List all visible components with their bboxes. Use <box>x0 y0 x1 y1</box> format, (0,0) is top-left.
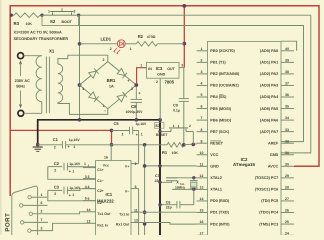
pin 27 (TDI) PC5 of IC2 <box>281 200 294 202</box>
svg-text:32: 32 <box>285 139 289 143</box>
svg-text:GND: GND <box>270 153 279 157</box>
svg-text:7: 7 <box>41 218 43 222</box>
node crystal bottom <box>192 188 195 191</box>
svg-text:1A: 1A <box>109 85 114 89</box>
pin 11 GND of IC2 <box>197 165 208 167</box>
svg-text:V+: V+ <box>125 165 129 169</box>
svg-text:RESET: RESET <box>156 133 169 137</box>
svg-text:Rx1 In: Rx1 In <box>97 224 108 228</box>
capacitor C9 <box>179 98 189 100</box>
node ground column at black bus <box>78 118 82 122</box>
svg-text:6: 6 <box>201 105 203 109</box>
svg-text:AREF: AREF <box>268 141 279 145</box>
wire V- pin6 down <box>138 189 140 235</box>
svg-text:0.1µ: 0.1µ <box>173 109 180 113</box>
svg-text:16: 16 <box>104 156 108 160</box>
svg-text:ATmega16: ATmega16 <box>233 162 255 167</box>
svg-text:2: 2 <box>201 58 203 62</box>
pin 38 (AD2) PA2 of IC2 <box>281 73 294 75</box>
svg-text:2: 2 <box>54 192 56 196</box>
wire secondary bottom to bridge AC2 <box>58 102 108 114</box>
pin 3 C1&#8722; of IC1 <box>83 178 96 180</box>
pin 1 PB0 (XCK/T0) of IC2 <box>197 50 208 52</box>
pin 28 (TOSC1) PC6 of IC2 <box>281 188 294 190</box>
svg-text:(TDO) PC4: (TDO) PC4 <box>259 211 279 215</box>
svg-text:4: 4 <box>88 185 90 189</box>
svg-text:PB6 (MISO): PB6 (MISO) <box>210 118 231 122</box>
crystal XTAL <box>193 178 195 181</box>
svg-text:1: 1 <box>72 169 74 173</box>
svg-text:26: 26 <box>285 209 289 213</box>
svg-text:BOOT: BOOT <box>62 20 73 24</box>
pin 34 (AD6) PA6 of IC2 <box>281 119 294 121</box>
svg-text:37: 37 <box>285 82 289 86</box>
svg-text:GND: GND <box>157 73 165 77</box>
ic IC2 ATmega16 box <box>208 42 282 236</box>
connector pin 7 <box>21 221 24 224</box>
svg-text:2: 2 <box>54 168 56 172</box>
svg-text:4: 4 <box>85 185 87 189</box>
svg-text:3: 3 <box>88 175 90 179</box>
svg-text:6: 6 <box>41 201 43 205</box>
wire crystal to C6 <box>193 189 195 204</box>
svg-text:30: 30 <box>285 162 289 166</box>
wire T1in to PD1 <box>139 211 197 213</box>
wire secondary top to bridge AC1 <box>58 55 108 64</box>
bridge diode top-left <box>89 71 97 78</box>
node at R1out wire <box>143 222 147 226</box>
wire DB9 pin7 stub <box>24 221 48 223</box>
node red corner at C5 <box>110 129 114 133</box>
svg-text:4: 4 <box>201 82 203 86</box>
svg-text:PB0 (XCK/T0): PB0 (XCK/T0) <box>210 49 235 53</box>
ic IC1 MAX232 box <box>96 161 131 236</box>
svg-text:13: 13 <box>200 186 204 190</box>
node C9 at reset wire <box>182 143 186 147</box>
svg-text:11: 11 <box>200 162 204 166</box>
svg-text:9: 9 <box>201 139 203 143</box>
svg-text:12: 12 <box>134 219 138 223</box>
svg-text:(TDI) PC5: (TDI) PC5 <box>261 199 278 203</box>
svg-text:10K: 10K <box>26 22 33 26</box>
wire XTAL1 pin13 <box>172 188 197 190</box>
svg-text:Vcc: Vcc <box>103 163 109 167</box>
svg-text:22p: 22p <box>155 179 161 183</box>
pin 6 PB5 (MOSI) of IC2 <box>197 108 208 110</box>
svg-text:PB7 (SCK): PB7 (SCK) <box>210 130 230 134</box>
svg-text:PB4 (SS): PB4 (SS) <box>210 95 227 99</box>
svg-text:1: 1 <box>73 145 75 149</box>
pin 9 RESET of IC2 <box>197 142 208 144</box>
pin 24 PC2 of IC2 partial <box>281 234 294 236</box>
svg-text:14: 14 <box>200 197 204 201</box>
LED1 arrows <box>114 48 117 53</box>
regulator IC3 7805 box <box>147 62 180 78</box>
pin 8 PB7 (SCK) of IC2 <box>197 131 208 133</box>
switch S2 BOOT <box>52 12 54 15</box>
node ground at C1 <box>36 143 40 147</box>
switch S1 RESET <box>160 131 171 133</box>
svg-text:AVCC: AVCC <box>268 165 279 169</box>
svg-text:1: 1 <box>48 10 50 14</box>
svg-text:VCC: VCC <box>210 153 218 157</box>
pin 10 VCC of IC2 <box>197 154 208 156</box>
svg-text:2: 2 <box>122 133 124 137</box>
svg-text:PB5 (MOSI): PB5 (MOSI) <box>210 107 231 111</box>
pin 12 XTAL2 of IC2 <box>197 177 208 179</box>
svg-text:39: 39 <box>285 58 289 62</box>
svg-text:XTAL2: XTAL2 <box>210 176 222 180</box>
transformer X1 core <box>45 57 47 114</box>
wire primary top lead <box>24 55 42 57</box>
pin 40 (AD0) PA0 of IC2 <box>281 50 294 52</box>
svg-text:1: 1 <box>84 162 86 166</box>
svg-text:IC3: IC3 <box>156 66 163 71</box>
wire LED to R2 <box>125 43 136 45</box>
svg-text:R1: R1 <box>162 150 168 155</box>
svg-text:35: 35 <box>285 105 289 109</box>
svg-text:(TMS) PC3: (TMS) PC3 <box>259 222 278 226</box>
wire IC3 out stub <box>179 67 184 69</box>
svg-text:IN: IN <box>148 67 152 71</box>
svg-text:–: – <box>104 108 107 113</box>
pin 14 PD0 (RXD) of IC2 <box>197 200 208 202</box>
wire R2 to +5V <box>158 43 185 45</box>
svg-text:25: 25 <box>285 220 289 224</box>
scan edge shading <box>0 0 2 235</box>
wire to IC2 GND pin11 <box>145 165 197 167</box>
pin 1 C1+ of IC1 <box>83 167 96 169</box>
pin 35 (AD5) PA5 of IC2 <box>281 108 294 110</box>
svg-text:(AD2) PA2: (AD2) PA2 <box>260 72 278 76</box>
svg-text:11: 11 <box>134 208 138 212</box>
svg-text:X: X <box>176 181 179 185</box>
svg-text:C1−: C1− <box>97 179 104 183</box>
pin 5 PB4 (SS) of IC2 <box>197 96 208 98</box>
svg-text:R2: R2 <box>138 34 144 39</box>
wire C9 to reset net <box>183 101 185 144</box>
pin 4 PB3 (OC0/AIN1) of IC2 <box>197 84 208 86</box>
svg-text:27: 27 <box>285 197 289 201</box>
svg-text:1µ,16V: 1µ,16V <box>136 122 148 126</box>
pin 3 PB2 (INT2/AIN0) of IC2 <box>197 73 208 75</box>
node S2 box left <box>40 14 43 17</box>
capacitor C6 <box>160 204 177 206</box>
svg-text:10K: 10K <box>172 151 179 155</box>
pin 39 (AD1) PA1 of IC2 <box>281 61 294 63</box>
svg-text:2: 2 <box>54 145 56 149</box>
transformer X1 primary terminal bottom <box>18 110 24 116</box>
svg-text:S1: S1 <box>155 124 160 128</box>
wire ground black bus horizontal <box>38 120 160 145</box>
svg-text:BR1: BR1 <box>107 78 116 83</box>
wire R1out to PD2 <box>139 223 197 225</box>
bridge diode bottom-right <box>117 95 125 102</box>
svg-text:470Ω: 470Ω <box>147 35 156 39</box>
pin 17 PD3 of IC2 partial <box>197 234 208 236</box>
svg-text:3: 3 <box>181 63 183 67</box>
pin 11 Tx1 In of IC1 <box>131 211 139 213</box>
svg-text:C2−: C2− <box>97 201 104 205</box>
capacitor C8 <box>131 98 143 100</box>
wire ground to C1 <box>38 144 63 146</box>
svg-text:2: 2 <box>135 162 137 166</box>
svg-text:GND: GND <box>210 165 219 169</box>
resistor R1 <box>167 143 184 148</box>
svg-text:24: 24 <box>285 231 289 235</box>
connector pin 1 <box>28 196 31 199</box>
svg-text:PB2 (INT2/AIN0): PB2 (INT2/AIN0) <box>210 72 240 76</box>
svg-text:Tx1 In: Tx1 In <box>119 212 129 216</box>
pin 2 V+ of IC1 <box>131 163 139 165</box>
pin 6 V- of IC1 <box>131 188 139 190</box>
pin 25 (TMS) PC3 of IC2 <box>281 223 294 225</box>
node C6 at ground bus <box>158 203 161 206</box>
node GND pin11 wire at +5V column <box>143 164 147 168</box>
svg-text:12: 12 <box>200 174 204 178</box>
capacitor C1 <box>61 141 63 149</box>
wire +5V column down <box>144 145 146 235</box>
svg-text:X1=230V AC TO 9V, 500mA: X1=230V AC TO 9V, 500mA <box>14 31 63 35</box>
wire R3 to S2 <box>40 14 311 16</box>
svg-text:PD1 (TXD): PD1 (TXD) <box>210 211 229 215</box>
node at T1in wire <box>143 210 147 214</box>
svg-text:34: 34 <box>285 116 289 120</box>
node ground bus corner IC3 <box>158 118 162 122</box>
node bridge minus corner <box>78 83 82 87</box>
arrow 230V down <box>19 91 22 108</box>
svg-text:(AD6) PA6: (AD6) PA6 <box>260 118 278 122</box>
wire ground column from S2 to black bus <box>79 15 81 120</box>
svg-text:1: 1 <box>201 47 203 51</box>
svg-text:40: 40 <box>285 47 289 51</box>
svg-text:SECONDARY TRANSFORMER: SECONDARY TRANSFORMER <box>14 37 69 41</box>
pin 12 Rx1 Out of IC1 <box>131 222 139 224</box>
svg-text:+: + <box>68 145 71 149</box>
node +5V / LED-R2 junction <box>182 42 186 46</box>
svg-text:+: + <box>127 78 130 83</box>
svg-text:1: 1 <box>41 193 43 197</box>
svg-text:10: 10 <box>200 151 204 155</box>
svg-text:2: 2 <box>103 58 105 62</box>
node S2 right / ground column <box>77 14 80 17</box>
connector pin 6 <box>20 204 23 207</box>
wire primary bottom lead <box>24 112 42 114</box>
svg-text:RESET: RESET <box>210 141 223 145</box>
ground symbol <box>33 146 43 148</box>
svg-text:PD2 (INT0): PD2 (INT0) <box>210 222 230 226</box>
svg-text:XTAL1: XTAL1 <box>210 188 222 192</box>
capacitor C3 <box>48 189 63 191</box>
svg-text:C2: C2 <box>54 161 60 166</box>
pin 37 (AD3) PA3 of IC2 <box>281 84 294 86</box>
svg-text:C5: C5 <box>114 121 120 126</box>
svg-text:2: 2 <box>110 47 112 51</box>
node S1 junction <box>192 143 196 147</box>
svg-text:(AD7) PA7: (AD7) PA7 <box>260 130 278 134</box>
wire C5 to V+ pin2 <box>138 131 140 164</box>
node R3 left <box>10 14 13 17</box>
svg-text:IC1: IC1 <box>106 192 113 197</box>
wire DB9 pin3 to R1in <box>31 223 83 230</box>
node +5V at MAX232 column <box>143 143 147 147</box>
svg-text:5: 5 <box>201 93 203 97</box>
pin 32 AREF of IC2 <box>281 142 294 144</box>
svg-text:5: 5 <box>85 197 87 201</box>
wire red +5V branch to MAX232 region <box>10 130 111 144</box>
connector pin 2 <box>29 212 32 215</box>
wire ground black bus vertical <box>159 120 161 235</box>
node +5V to MAX232 Vcc <box>110 143 114 147</box>
svg-text:1: 1 <box>140 63 142 67</box>
resistor R2 <box>136 42 157 47</box>
svg-text:50Hz: 50Hz <box>16 84 25 88</box>
svg-text:C7: C7 <box>155 174 160 178</box>
arrow 230V up <box>19 61 22 76</box>
svg-text:16: 16 <box>200 220 204 224</box>
svg-text:2: 2 <box>74 10 76 14</box>
svg-text:1: 1 <box>141 132 143 136</box>
wire MAX232 Vcc pin16 <box>110 145 112 161</box>
svg-text:(AD1) PA1: (AD1) PA1 <box>260 61 278 65</box>
svg-text:OUT: OUT <box>167 67 175 71</box>
wire bridge plus to C8 <box>135 85 137 99</box>
svg-text:C9: C9 <box>173 104 178 108</box>
svg-text:V−: V− <box>125 190 129 194</box>
bridge diode bottom-left <box>89 92 97 99</box>
svg-text:28: 28 <box>285 186 289 190</box>
svg-text:33: 33 <box>285 128 289 132</box>
node LED wire junction <box>78 42 82 46</box>
svg-text:1µ,16V: 1µ,16V <box>69 138 81 142</box>
capacitor C2 <box>48 166 63 168</box>
svg-text:C1: C1 <box>53 137 59 142</box>
svg-text:3: 3 <box>41 226 43 230</box>
bridge diode top-right <box>117 68 125 75</box>
svg-text:C3: C3 <box>54 185 60 190</box>
wire XTAL2 pin12 <box>166 177 197 179</box>
wire DB9 pin6 stub <box>23 204 48 206</box>
svg-text:6: 6 <box>135 185 137 189</box>
svg-text:1: 1 <box>173 124 175 128</box>
wire C1 to +5V node and R1 <box>66 144 167 146</box>
node bridge plus corner <box>134 83 138 87</box>
wire PA0 pin40 to top <box>281 41 297 51</box>
svg-text:29: 29 <box>285 174 289 178</box>
svg-text:PB1 (T1): PB1 (T1) <box>210 61 226 65</box>
svg-text:17: 17 <box>200 231 204 235</box>
svg-text:PB3 (OC0/AIN1): PB3 (OC0/AIN1) <box>210 84 239 88</box>
svg-text:S2: S2 <box>50 19 56 24</box>
svg-text:2: 2 <box>189 124 191 128</box>
svg-text:(AD5) PA5: (AD5) PA5 <box>260 107 278 111</box>
bridge BR1 outline <box>80 62 137 109</box>
transformer X1 secondary winding <box>58 64 63 102</box>
wire +5V red bus (left/top/right border loop to AVCC) <box>10 6 319 196</box>
wire DB9 pin1 stub <box>31 196 47 198</box>
pin 16 PD2 (INT0) of IC2 <box>197 223 208 225</box>
svg-text:(AD3) PA3: (AD3) PA3 <box>260 84 278 88</box>
svg-text:2: 2 <box>41 210 43 214</box>
capacitor C5 <box>112 130 130 132</box>
svg-text:15: 15 <box>200 209 204 213</box>
svg-text:3: 3 <box>201 70 203 74</box>
svg-text:7805: 7805 <box>165 79 175 84</box>
wire red +5V drop to 7805 output <box>183 6 185 68</box>
pin 29 (TOSC2) PC7 of IC2 <box>281 177 294 179</box>
svg-text:8: 8 <box>201 128 203 132</box>
svg-text:3: 3 <box>131 87 133 91</box>
node C7 at ground bus <box>158 181 161 184</box>
transformer X1 primary terminal top <box>18 53 24 59</box>
pin 36 (AD4) PA4 of IC2 <box>281 96 294 98</box>
pin 14 Tx1 Out of IC1 <box>83 211 96 213</box>
svg-text:C1+: C1+ <box>97 168 104 172</box>
wire LED net <box>80 43 118 45</box>
svg-text:(TOSC1) PC6: (TOSC1) PC6 <box>255 188 279 192</box>
text S1 labels <box>154 123 164 129</box>
wire DB9 pin2 to T1out <box>33 212 83 214</box>
svg-text:X1: X1 <box>49 49 55 54</box>
svg-text:38: 38 <box>285 70 289 74</box>
pin 4 C2+ of IC1 <box>83 188 96 190</box>
wire S2 net y15 <box>12 14 15 16</box>
svg-text:3: 3 <box>85 175 87 179</box>
wire 7805 out down to C9 <box>183 68 185 99</box>
pin 7 PB6 (MISO) of IC2 <box>197 119 208 121</box>
svg-text:PORT: PORT <box>4 213 11 232</box>
resistor R3 <box>14 13 40 18</box>
node GND pin11 wire at black bus <box>158 164 162 168</box>
svg-text:(TOSC2) PC7: (TOSC2) PC7 <box>255 176 279 180</box>
svg-text:22p: 22p <box>166 205 172 209</box>
svg-text:13: 13 <box>87 220 91 224</box>
wire S2 box-bottom to AREF <box>79 26 304 142</box>
pin 30 AVCC of IC2 <box>281 165 294 167</box>
svg-text:PD0 (RXD): PD0 (RXD) <box>210 199 230 203</box>
svg-text:C8: C8 <box>131 104 137 109</box>
svg-text:1µ,16V: 1µ,16V <box>69 162 81 166</box>
wire S1 right down to reset node <box>192 132 194 145</box>
svg-text:R3: R3 <box>14 21 20 26</box>
wire R1 to RESET pin9 <box>184 143 197 146</box>
svg-text:(AD4) PA4: (AD4) PA4 <box>260 95 279 99</box>
svg-text:(AD0) PA0: (AD0) PA0 <box>260 49 278 53</box>
pin 33 (AD7) PA7 of IC2 <box>281 131 294 133</box>
svg-text:7: 7 <box>201 116 203 120</box>
svg-text:C6: C6 <box>166 201 171 205</box>
wire IC3 gnd down to bus <box>159 78 161 120</box>
svg-text:230V AC: 230V AC <box>15 79 31 83</box>
transformer X1 primary winding <box>36 56 42 114</box>
node C8 at ground bus <box>135 118 139 122</box>
node crystal top <box>192 176 195 179</box>
svg-text:1: 1 <box>72 193 74 197</box>
svg-text:1: 1 <box>130 47 132 51</box>
svg-text:36: 36 <box>285 93 289 97</box>
wire ground top bus to IC2 GND pin31 <box>281 15 311 153</box>
svg-text:2: 2 <box>156 80 158 84</box>
svg-text:LED1: LED1 <box>101 36 112 41</box>
pin 5 C2&#8722; of IC1 <box>83 200 96 202</box>
node +5V top junction <box>182 4 186 8</box>
pin 15 PD1 (TXD) of IC2 <box>197 212 208 214</box>
LED LED1 <box>117 40 125 48</box>
pin 13 XTAL1 of IC2 <box>197 188 208 190</box>
svg-text:1µ,16V: 1µ,16V <box>69 186 81 190</box>
pin 26 (TDO) PC4 of IC2 <box>281 212 294 214</box>
svg-text:31: 31 <box>285 151 289 155</box>
